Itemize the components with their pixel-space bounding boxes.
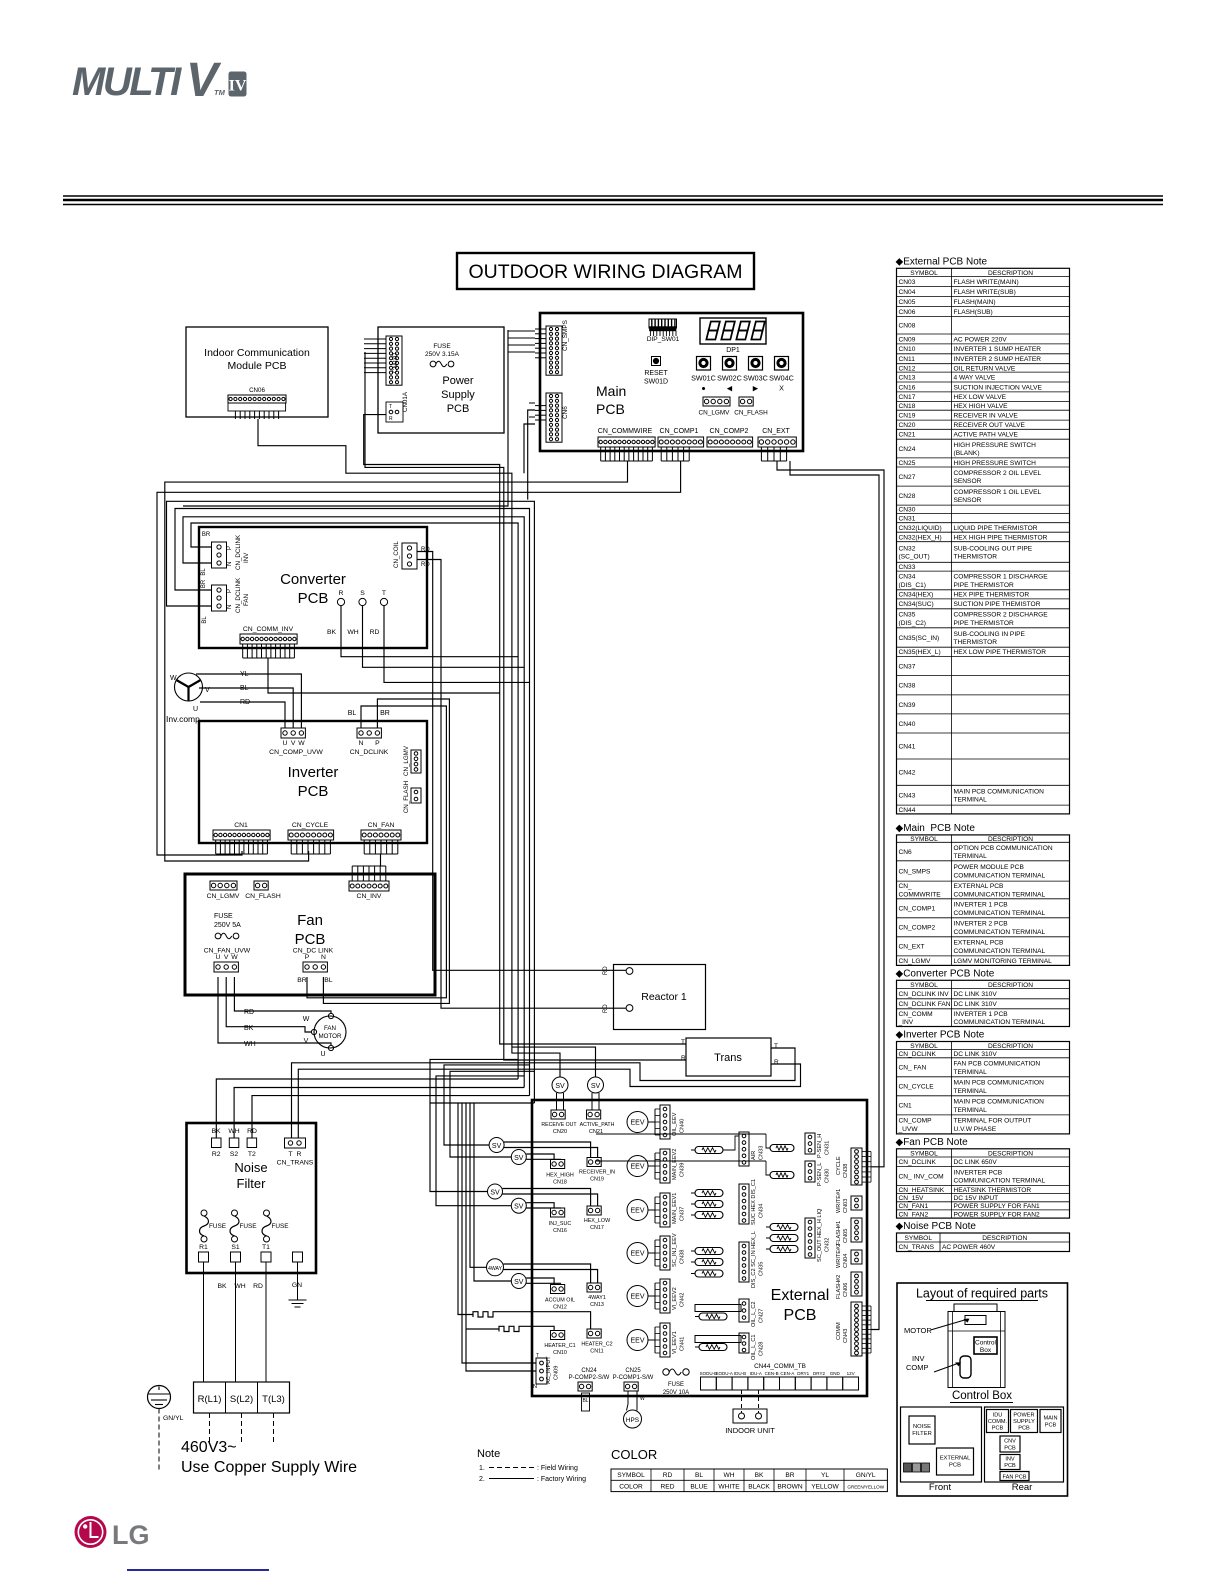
- svg-text:INDOOR UNIT: INDOOR UNIT: [725, 1426, 775, 1435]
- svg-text:S2: S2: [230, 1151, 239, 1158]
- svg-text:PCB: PCB: [1004, 1446, 1016, 1452]
- svg-text:CN38: CN38: [680, 1250, 686, 1264]
- EEV CN37 MAIN_EEV1: [627, 1200, 648, 1221]
- svg-text:CN_FAN1: CN_FAN1: [899, 1203, 929, 1210]
- svg-text:460V3~: 460V3~: [181, 1439, 237, 1456]
- svg-text:CN_INV: CN_INV: [357, 893, 382, 900]
- wire CN_SMPS comb stubs: [183, 330, 508, 506]
- svg-text:TERMINAL: TERMINAL: [954, 797, 988, 804]
- svg-text:CN32(HEX_H): CN32(HEX_H): [899, 534, 942, 541]
- INDOOR UNIT: [733, 1409, 767, 1423]
- svg-text:CN40: CN40: [899, 721, 916, 728]
- svg-text:CYCLE: CYCLE: [836, 1156, 842, 1175]
- svg-text:CN06: CN06: [843, 1283, 849, 1297]
- connector CN05 FLASH#1: [851, 1218, 862, 1242]
- svg-text:CN44_COMM_TB: CN44_COMM_TB: [754, 1363, 806, 1370]
- svg-text:CN_FAN: CN_FAN: [368, 822, 395, 829]
- svg-text:CN_COMP2: CN_COMP2: [899, 925, 936, 932]
- svg-text:W: W: [640, 1396, 645, 1402]
- svg-text:CN11: CN11: [590, 1349, 603, 1355]
- wire loop INV BL: [183, 517, 524, 1088]
- svg-text:CN06: CN06: [899, 309, 916, 316]
- svg-text:T2: T2: [248, 1151, 256, 1158]
- wire converter T RD: [384, 606, 530, 683]
- box Converter PCB: [199, 527, 427, 648]
- wire SV2 branch: [512, 1047, 596, 1077]
- svg-text:HEATER_C1: HEATER_C1: [544, 1343, 575, 1349]
- svg-text:◆Fan PCB Note: ◆Fan PCB Note: [896, 1137, 969, 1148]
- svg-text:INV: INV: [1005, 1457, 1015, 1463]
- connector CN10 HEATER_C1: [551, 1331, 565, 1340]
- svg-text:TERMINAL: TERMINAL: [954, 853, 988, 860]
- wire inv comp RD: [200, 702, 285, 728]
- logo MULTI V IV: [72, 54, 226, 107]
- svg-text:Fan: Fan: [297, 912, 323, 929]
- svg-text:P-SEN_H: P-SEN_H: [817, 1134, 823, 1158]
- connector CN16 INJ_SUC: [551, 1208, 565, 1217]
- svg-text:PIPE THERMISTOR: PIPE THERMISTOR: [954, 620, 1014, 627]
- front panel: [901, 1407, 982, 1482]
- svg-text:RED: RED: [661, 1483, 675, 1490]
- svg-text:RECEIVER_IN: RECEIVER_IN: [579, 1170, 615, 1176]
- svg-text:CN33: CN33: [759, 1146, 765, 1160]
- box Main PCB: [540, 313, 803, 451]
- svg-text:(BLANK): (BLANK): [954, 450, 980, 457]
- connector CN17 HEX_LOW: [587, 1206, 601, 1215]
- EEV CN40 OIL_EEV: [627, 1112, 648, 1133]
- svg-text:EEV: EEV: [630, 1208, 644, 1215]
- svg-text:PCB: PCB: [1004, 1463, 1016, 1469]
- svg-text:R1: R1: [199, 1244, 208, 1251]
- box Indoor Communication Module PCB: [186, 327, 328, 417]
- svg-text:ACCUM OIL: ACCUM OIL: [545, 1298, 575, 1304]
- svg-text:DC LINK 310V: DC LINK 310V: [954, 1001, 998, 1008]
- svg-text:P-COMP2-S/W: P-COMP2-S/W: [569, 1375, 610, 1381]
- box Layout of required parts: [897, 1283, 1068, 1496]
- svg-text:BK: BK: [244, 1025, 254, 1032]
- svg-text:CN_TRANS: CN_TRANS: [277, 1160, 314, 1167]
- svg-text:◀: ◀: [727, 384, 733, 393]
- svg-text:CN17: CN17: [590, 1225, 604, 1231]
- thermistors SUC HEX DIS_C1 CN34: [695, 1190, 723, 1197]
- rotary switches SW01C-SW04C: [697, 357, 711, 371]
- svg-text:(SC_OUT): (SC_OUT): [899, 553, 930, 560]
- svg-text:HEX HIGH VALVE: HEX HIGH VALVE: [954, 403, 1009, 410]
- box Noise Filter: [187, 1123, 317, 1273]
- connector CN01A: [386, 402, 403, 422]
- svg-text:EEV: EEV: [630, 1164, 644, 1171]
- svg-text:CN_COMP1: CN_COMP1: [899, 906, 936, 913]
- svg-text:DP1: DP1: [726, 347, 740, 354]
- svg-text:FAN PCB: FAN PCB: [1003, 1475, 1027, 1481]
- svg-text:INVERTER PCB: INVERTER PCB: [954, 1169, 1003, 1176]
- wire SV hex high feed: [444, 1065, 530, 1145]
- svg-text:INVERTER 1 PCB: INVERTER 1 PCB: [954, 902, 1009, 909]
- connector CN13 4WAY1: [587, 1283, 601, 1292]
- svg-text:●: ●: [701, 384, 705, 393]
- connector CN_SMPS: [546, 326, 562, 375]
- svg-text:INVERTER 1 SUMP HEATER: INVERTER 1 SUMP HEATER: [954, 346, 1042, 353]
- svg-text:4WAY1: 4WAY1: [588, 1295, 606, 1301]
- EEV CN39 MAIN_EEV2: [627, 1156, 648, 1177]
- wire CN06 to SV trunk: [258, 419, 560, 1077]
- svg-text:CN43: CN43: [899, 793, 916, 800]
- svg-text:CN_15V: CN_15V: [899, 1195, 925, 1202]
- svg-text:CN_FLASH: CN_FLASH: [734, 410, 768, 417]
- svg-text:RD: RD: [370, 629, 380, 636]
- fuses noise filter: [201, 1210, 207, 1216]
- svg-text:PCB: PCB: [949, 1463, 961, 1469]
- svg-text:Trans: Trans: [714, 1052, 742, 1064]
- heater element 1: [473, 1312, 591, 1329]
- svg-text:4WAY: 4WAY: [488, 1266, 503, 1272]
- svg-text:DC 15V INPUT: DC 15V INPUT: [954, 1195, 999, 1202]
- svg-text:BR: BR: [380, 710, 390, 717]
- svg-text:CN1: CN1: [899, 1103, 913, 1110]
- svg-text:T: T: [681, 1039, 685, 1046]
- svg-text:S1: S1: [231, 1244, 240, 1251]
- wire CN_COMM_INV net: [268, 658, 500, 693]
- wire SV hex low feed: [436, 1076, 524, 1206]
- svg-text:SUCTION PIPE THEMISTOR: SUCTION PIPE THEMISTOR: [954, 601, 1041, 608]
- connector CN_LGMV inverter: [411, 750, 421, 773]
- svg-text:T(L3): T(L3): [262, 1394, 285, 1405]
- svg-text:AC POWER 220V: AC POWER 220V: [954, 336, 1008, 343]
- svg-text:BR: BR: [202, 532, 211, 538]
- connector CN12 ACCUM OIL: [551, 1285, 565, 1294]
- svg-text:V: V: [186, 54, 222, 107]
- wire SV inj suc feed: [430, 1059, 518, 1191]
- thermistors SC_OUT HEX_H LIQ CN32: [770, 1224, 798, 1231]
- svg-text:RD: RD: [253, 1283, 263, 1290]
- wire CN_EXT to CN38 CYCLE: [777, 461, 884, 1167]
- svg-text:SYMBOL: SYMBOL: [910, 1043, 938, 1050]
- connector CN18 HEX_HIGH: [551, 1160, 565, 1169]
- switch HPS: [624, 1410, 642, 1428]
- svg-text:YL: YL: [821, 1472, 829, 1479]
- svg-text:DESCRIPTION: DESCRIPTION: [982, 1235, 1027, 1242]
- svg-text:SV: SV: [492, 1143, 502, 1150]
- svg-text:Main: Main: [596, 383, 626, 399]
- svg-text:OIL RETURN VALVE: OIL RETURN VALVE: [954, 365, 1016, 372]
- svg-text:CN33: CN33: [899, 564, 916, 571]
- svg-text:P-SEN_L: P-SEN_L: [817, 1163, 823, 1186]
- fuse external 250V 10A: [663, 1369, 669, 1375]
- svg-text:CN44: CN44: [899, 807, 916, 814]
- svg-text:COMMUNICATION TERMINAL: COMMUNICATION TERMINAL: [954, 910, 1046, 917]
- svg-text:CEN-A: CEN-A: [780, 1371, 794, 1376]
- thermistor P-SEN_L CN30: [770, 1172, 794, 1179]
- svg-text:HEX HIGH PIPE THERMISTOR: HEX HIGH PIPE THERMISTOR: [954, 534, 1048, 541]
- connector CN09 AC_INPUT: [536, 1358, 547, 1384]
- svg-text:FLASH(SUB): FLASH(SUB): [954, 309, 993, 316]
- svg-text:SV: SV: [514, 1204, 524, 1211]
- svg-text:CN_EXT: CN_EXT: [762, 428, 790, 435]
- connector CN_TRANS: [285, 1138, 306, 1148]
- svg-text:PCB: PCB: [298, 590, 329, 607]
- svg-text:CN09: CN09: [554, 1366, 560, 1380]
- svg-text:MOTOR: MOTOR: [319, 1033, 342, 1040]
- svg-text:CN42: CN42: [680, 1293, 686, 1307]
- svg-text:CN03: CN03: [843, 1199, 849, 1213]
- svg-text:CN35(SC_IN): CN35(SC_IN): [899, 635, 940, 642]
- solenoid SV hex high group top: [489, 1138, 504, 1153]
- box Power Supply PCB: [378, 327, 504, 433]
- svg-text:CN19: CN19: [899, 413, 916, 420]
- svg-text:CN31: CN31: [825, 1141, 831, 1155]
- terminals R2 S2 T2: [212, 1138, 222, 1148]
- svg-text:COMMUNICATION TERMINAL: COMMUNICATION TERMINAL: [954, 1019, 1046, 1026]
- svg-text:CN41: CN41: [680, 1337, 686, 1351]
- svg-text:CN35: CN35: [759, 1262, 765, 1276]
- connector CN_FLASH fan: [254, 881, 268, 890]
- wires SV to CN19: [504, 1142, 591, 1158]
- svg-text:BR: BR: [785, 1472, 794, 1479]
- svg-text:(DIS_C1): (DIS_C1): [899, 582, 926, 589]
- svg-text:COMMUNICATION TERMINAL: COMMUNICATION TERMINAL: [954, 891, 1046, 898]
- svg-text:BL: BL: [201, 568, 207, 576]
- svg-text:COMM: COMM: [836, 1322, 842, 1340]
- svg-text:CN_COMP_UVW: CN_COMP_UVW: [269, 749, 323, 756]
- svg-text:LG: LG: [112, 1520, 150, 1550]
- svg-text:T: T: [382, 590, 386, 597]
- svg-text:CN_DCLINK FAN: CN_DCLINK FAN: [899, 1001, 951, 1008]
- svg-text:TM: TM: [214, 88, 226, 97]
- svg-text:TERMINAL: TERMINAL: [954, 1069, 988, 1076]
- svg-text:RD: RD: [421, 562, 430, 568]
- svg-text:OUTDOOR WIRING DIAGRAM: OUTDOOR WIRING DIAGRAM: [468, 261, 742, 283]
- svg-text:CN_DC LINK: CN_DC LINK: [293, 948, 334, 955]
- svg-text:CN_LGMV: CN_LGMV: [207, 893, 240, 900]
- connector CN20 RECEIVE OUT: [551, 1110, 565, 1119]
- svg-text:CN_DCLINK: CN_DCLINK: [235, 577, 242, 613]
- svg-text:1.: 1.: [479, 1465, 485, 1472]
- svg-text:PCB: PCB: [298, 783, 329, 800]
- solenoid SV receiver in group: [511, 1150, 526, 1165]
- wire heater 1: [458, 1103, 473, 1315]
- svg-text:IDU-A: IDU-A: [750, 1371, 762, 1376]
- svg-text:CN_: CN_: [899, 883, 913, 890]
- svg-text:SUC HEX DIS_C1: SUC HEX DIS_C1: [751, 1179, 757, 1225]
- svg-text:PCB: PCB: [1045, 1423, 1057, 1429]
- svg-text:CN_LGMV: CN_LGMV: [699, 410, 731, 417]
- connector CN04 WRITE#2: [851, 1250, 862, 1264]
- wires SV to CN16: [526, 1203, 554, 1208]
- wire trans right R to CN_TRANS: [298, 1064, 800, 1138]
- svg-text:EXTERNAL PCB: EXTERNAL PCB: [954, 883, 1005, 890]
- svg-text:FAN: FAN: [324, 1025, 336, 1032]
- svg-text:COMPRESSOR 2 OIL LEVEL: COMPRESSOR 2 OIL LEVEL: [954, 470, 1042, 477]
- terminal block R(L1) S(L2) T(L3): [194, 1382, 290, 1413]
- svg-text:SV: SV: [555, 1083, 565, 1090]
- svg-text:POWER SUPPLY FOR FAN1: POWER SUPPLY FOR FAN1: [954, 1203, 1041, 1210]
- svg-text:MAIN_EEV1: MAIN_EEV1: [672, 1193, 678, 1224]
- svg-text:COMPRESSOR 1 DISCHARGE: COMPRESSOR 1 DISCHARGE: [954, 574, 1049, 581]
- svg-text:CN25: CN25: [899, 460, 916, 467]
- svg-text:CN24: CN24: [899, 446, 916, 453]
- svg-text:POWER MODULE PCB: POWER MODULE PCB: [954, 864, 1025, 871]
- svg-text:FUSE: FUSE: [240, 1223, 257, 1230]
- svg-text:WH: WH: [724, 1472, 735, 1479]
- svg-text:: Factory Wiring: : Factory Wiring: [537, 1476, 586, 1483]
- svg-text:CN_COIL: CN_COIL: [393, 541, 400, 568]
- svg-text:CN41: CN41: [899, 743, 916, 750]
- svg-text:IV: IV: [229, 78, 247, 95]
- svg-text:CN34: CN34: [759, 1204, 765, 1218]
- svg-text:CEN-B: CEN-B: [765, 1371, 779, 1376]
- svg-text:SW04C: SW04C: [769, 374, 794, 383]
- wire CN6 comb stubs: [528, 410, 535, 500]
- svg-text:MAIN PCB COMMUNICATION: MAIN PCB COMMUNICATION: [954, 1099, 1045, 1106]
- svg-text:FLASH(MAIN): FLASH(MAIN): [954, 299, 996, 306]
- svg-text:CN39: CN39: [899, 702, 916, 709]
- svg-text:SUCTION INJECTION VALVE: SUCTION INJECTION VALVE: [954, 384, 1043, 391]
- svg-text:N: N: [359, 740, 364, 747]
- svg-text:(DIS_C2): (DIS_C2): [899, 620, 926, 627]
- svg-text:CN05: CN05: [843, 1229, 849, 1243]
- svg-text:CN_COMP1: CN_COMP1: [660, 428, 699, 435]
- svg-text:SYMBOL: SYMBOL: [905, 1235, 933, 1242]
- svg-text:Module PCB: Module PCB: [228, 360, 287, 372]
- thermistor OIL_L_C2 CN27: [695, 1305, 741, 1312]
- svg-text:Box: Box: [980, 1347, 992, 1354]
- svg-text:CN_FLASH: CN_FLASH: [245, 893, 281, 900]
- motor FAN MOTOR: [314, 1016, 346, 1048]
- wire loop FAN BR: [175, 509, 530, 1096]
- svg-text:DC LINK 650V: DC LINK 650V: [954, 1159, 998, 1166]
- svg-text:R: R: [774, 1059, 779, 1066]
- svg-text:T: T: [389, 404, 392, 410]
- svg-text:CN_DCLINK: CN_DCLINK: [350, 749, 389, 756]
- svg-text:CN40: CN40: [680, 1119, 686, 1133]
- svg-text:SV: SV: [490, 1190, 500, 1197]
- svg-text:CN01A: CN01A: [402, 391, 409, 412]
- svg-text:CN32: CN32: [899, 545, 916, 552]
- wire CN_COMP1 to CN1: [157, 461, 681, 855]
- wire fan motor WH: [218, 977, 331, 1045]
- svg-text:FUSE: FUSE: [272, 1223, 289, 1230]
- svg-text:CN43: CN43: [843, 1329, 849, 1343]
- svg-text:INVERTER 2 SUMP HEATER: INVERTER 2 SUMP HEATER: [954, 356, 1042, 363]
- control box small: [974, 1337, 997, 1354]
- connector CN_COMP_UVW: [281, 728, 305, 738]
- title OUTDOOR WIRING DIAGRAM: [457, 253, 754, 289]
- svg-text:CN_ FAN: CN_ FAN: [899, 1065, 927, 1072]
- svg-text:TERMINAL: TERMINAL: [954, 1088, 988, 1095]
- footer line: [127, 1569, 269, 1571]
- unit drawing: [954, 1304, 997, 1312]
- svg-text:DRY2: DRY2: [813, 1371, 825, 1376]
- svg-text:EXTERNAL PCB: EXTERNAL PCB: [954, 940, 1005, 947]
- wire inverter BR to fan BL: [323, 699, 449, 1003]
- svg-text:CN37: CN37: [899, 663, 916, 670]
- svg-text:CN13: CN13: [590, 1302, 604, 1308]
- svg-text:R: R: [681, 1055, 686, 1062]
- svg-text:CN_COMM: CN_COMM: [899, 1011, 933, 1018]
- svg-text:CN_SMPS: CN_SMPS: [562, 320, 569, 351]
- wire 4WAY feed: [470, 1103, 487, 1267]
- svg-text:PCB: PCB: [295, 931, 326, 948]
- svg-text:IDU: IDU: [993, 1413, 1003, 1419]
- svg-text:CN24: CN24: [581, 1368, 597, 1374]
- wire inv comp BL: [199, 688, 293, 728]
- svg-text:N: N: [321, 954, 326, 961]
- solenoid 4WAY: [487, 1259, 504, 1276]
- svg-text:VI_EEV2: VI_EEV2: [672, 1287, 678, 1310]
- svg-text:Front: Front: [929, 1482, 952, 1493]
- svg-text:PCB: PCB: [784, 1307, 817, 1324]
- svg-text:Indoor Communication: Indoor Communication: [204, 347, 310, 359]
- svg-text:R: R: [389, 416, 393, 422]
- svg-text:SW01D: SW01D: [644, 379, 668, 386]
- svg-text:SC_OUT HEX_H LIQ: SC_OUT HEX_H LIQ: [817, 1208, 823, 1262]
- svg-text:CN27: CN27: [899, 474, 916, 481]
- svg-text:◆Converter PCB Note: ◆Converter PCB Note: [896, 968, 995, 979]
- svg-text:FILTER: FILTER: [912, 1431, 932, 1437]
- svg-text:Power: Power: [442, 375, 474, 387]
- solenoid SV inj suc group top: [488, 1184, 503, 1199]
- svg-text:CN30: CN30: [825, 1169, 831, 1183]
- svg-text:CN35: CN35: [899, 612, 916, 619]
- svg-text:CN18: CN18: [899, 403, 916, 410]
- svg-text:U: U: [216, 954, 221, 961]
- svg-text:PCB: PCB: [1018, 1426, 1030, 1432]
- svg-text:COMPRESSOR 2 DISCHARGE: COMPRESSOR 2 DISCHARGE: [954, 612, 1049, 619]
- connector CN_DCLINK inverter: [357, 728, 381, 738]
- svg-text:CN05: CN05: [899, 299, 916, 306]
- svg-text:CN_COMMWIRE: CN_COMMWIRE: [598, 428, 653, 435]
- svg-text:Layout of required parts: Layout of required parts: [916, 1287, 1048, 1301]
- svg-text:CN04: CN04: [899, 289, 916, 296]
- svg-text:CN34(SUC): CN34(SUC): [899, 601, 934, 608]
- connector CN03 WRITE#1: [851, 1196, 862, 1210]
- svg-text:CN_DCLINK: CN_DCLINK: [899, 1051, 937, 1058]
- connector CN06 FLASH#2: [851, 1272, 862, 1296]
- svg-text:BROWN: BROWN: [777, 1483, 803, 1490]
- svg-text:CN_DCLINK INV: CN_DCLINK INV: [899, 991, 950, 998]
- svg-text:Inverter: Inverter: [288, 764, 339, 781]
- svg-text:U: U: [320, 1051, 325, 1058]
- box Reactor 1: [614, 965, 706, 1030]
- svg-text:DESCRIPTION: DESCRIPTION: [988, 1043, 1033, 1050]
- svg-text:CN27: CN27: [759, 1309, 765, 1323]
- svg-text:CN09: CN09: [899, 336, 916, 343]
- svg-text:COLOR: COLOR: [611, 1447, 657, 1462]
- svg-text:BLACK: BLACK: [748, 1483, 770, 1490]
- svg-text:CN10: CN10: [553, 1350, 567, 1356]
- svg-text:WH: WH: [347, 629, 358, 636]
- svg-text:LIQUID PIPE THERMISTOR: LIQUID PIPE THERMISTOR: [954, 525, 1038, 532]
- thermistor OIL_L_C1 CN28: [695, 1336, 741, 1343]
- svg-text:CN30: CN30: [899, 507, 916, 514]
- svg-text:INVERTER 1 PCB: INVERTER 1 PCB: [954, 1011, 1009, 1018]
- box Fan PCB: [185, 874, 435, 995]
- svg-text:SYMBOL: SYMBOL: [910, 270, 938, 277]
- wire AC input N: [462, 1103, 536, 1363]
- svg-text:2.: 2.: [479, 1476, 485, 1483]
- svg-text:SUB-COOLING OUT PIPE: SUB-COOLING OUT PIPE: [954, 545, 1033, 552]
- svg-text:CN20: CN20: [553, 1129, 567, 1135]
- svg-text:SV: SV: [514, 1279, 524, 1286]
- thermistor P-SEN_H CN31: [770, 1145, 794, 1152]
- svg-text:CN38: CN38: [899, 683, 916, 690]
- svg-text:PCB: PCB: [447, 403, 470, 415]
- svg-text:SODU-A: SODU-A: [715, 1371, 733, 1376]
- connector CN43 COMM: [851, 1302, 862, 1356]
- svg-text:CN39: CN39: [680, 1163, 686, 1177]
- wire noise T2 RD: [252, 1096, 530, 1138]
- svg-text:_INV: _INV: [898, 1019, 914, 1026]
